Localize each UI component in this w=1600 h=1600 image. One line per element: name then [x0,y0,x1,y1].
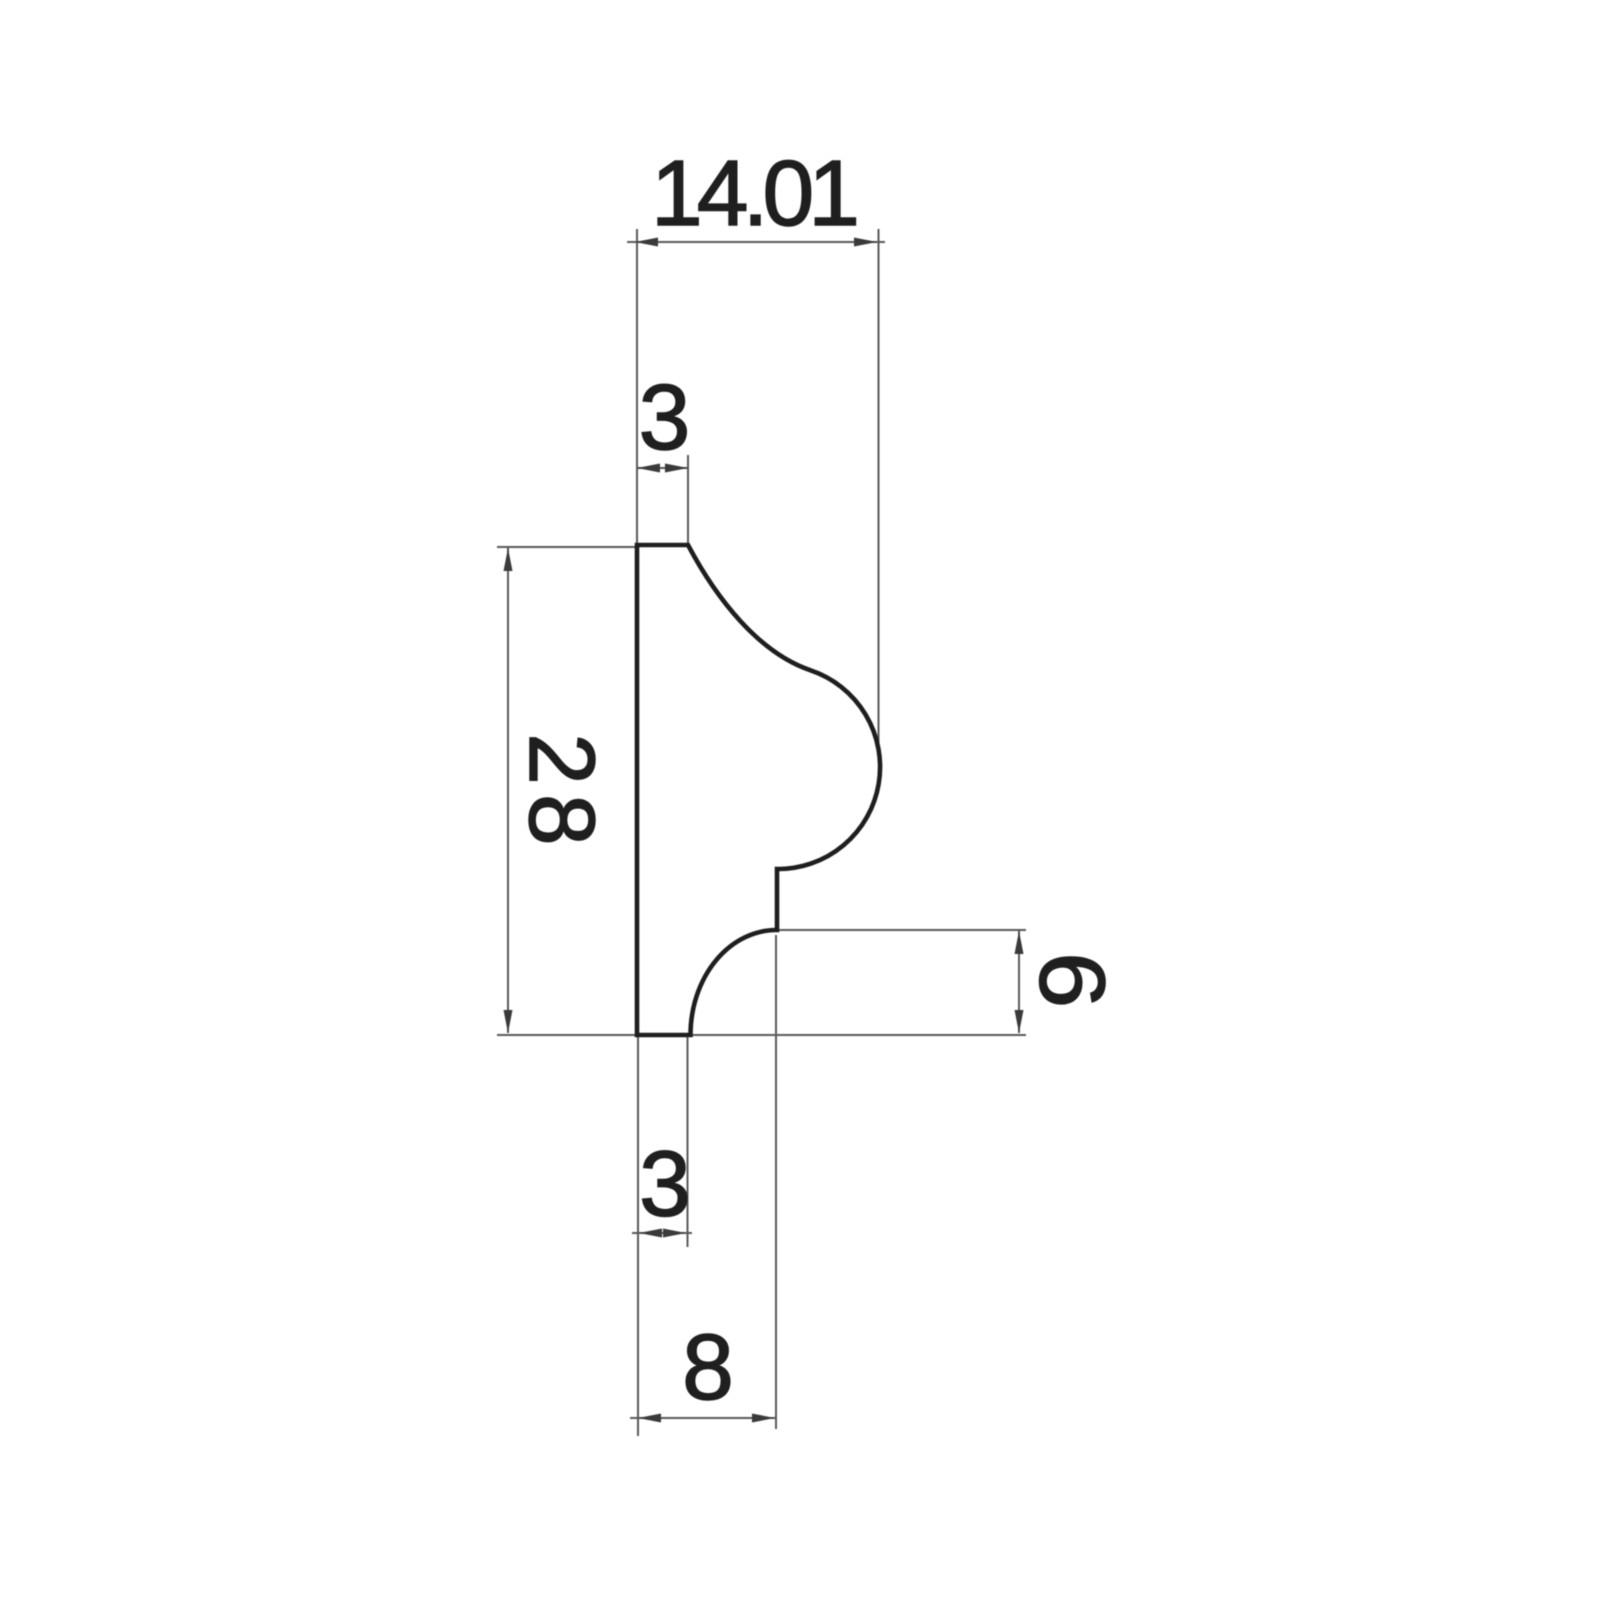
svg-text:3: 3 [639,1132,691,1236]
svg-text:6: 6 [1020,952,1124,1008]
svg-text:3: 3 [639,365,691,469]
svg-text:28: 28 [510,733,614,854]
svg-text:8: 8 [682,1315,734,1419]
svg-text:14.01: 14.01 [651,141,860,245]
